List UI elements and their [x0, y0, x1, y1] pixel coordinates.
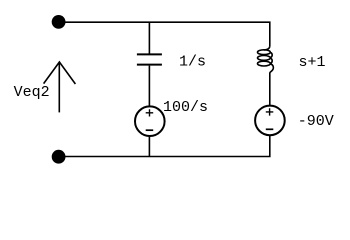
svg-text:s+1: s+1 [299, 54, 326, 71]
svg-text:1/s: 1/s [179, 53, 206, 70]
svg-text:100/s: 100/s [163, 99, 208, 116]
svg-text:-90V: -90V [298, 113, 334, 130]
svg-text:Veq2: Veq2 [14, 84, 50, 101]
